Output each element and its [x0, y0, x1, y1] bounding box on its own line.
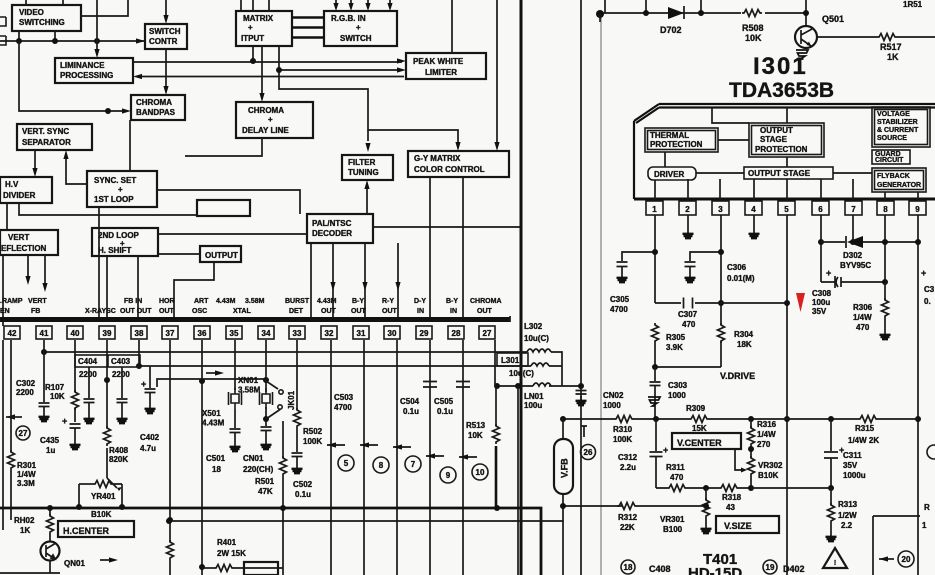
svg-text:!: ! [834, 560, 836, 567]
svg-text:PROTECTION: PROTECTION [650, 140, 703, 149]
block LUMINANCE PROCESSING [55, 58, 133, 83]
svg-text:DECODER: DECODER [312, 229, 352, 238]
wire pin31 column full [363, 340, 365, 575]
svg-text:3.58M: 3.58M [238, 386, 261, 395]
svg-text:R502: R502 [303, 427, 323, 436]
wire pin1 column [622, 215, 655, 303]
svg-text:3.58M: 3.58M [245, 298, 265, 305]
svg-text:R316: R316 [757, 420, 777, 429]
svg-text:40: 40 [71, 329, 80, 338]
node circled 8 [373, 457, 389, 473]
wire pin3 column [720, 215, 722, 367]
svg-text:4700: 4700 [610, 305, 628, 314]
svg-text:R310: R310 [613, 425, 633, 434]
svg-text:R304: R304 [734, 330, 754, 339]
node X-RAY SC [85, 308, 116, 315]
wire thick page divider [520, 0, 523, 575]
block GUARD CIRCUIT [872, 150, 910, 164]
svg-text:B-Y: B-Y [446, 298, 458, 305]
arrow right near QN01 [100, 557, 118, 562]
svg-text:HD-15D: HD-15D [688, 565, 742, 575]
svg-text:8: 8 [379, 461, 384, 470]
svg-text:HOR: HOR [159, 298, 175, 305]
resistor RH02 [47, 508, 54, 541]
pin 9 [909, 201, 926, 215]
svg-text:H.V: H.V [5, 180, 19, 189]
capacitor C404 [84, 367, 95, 423]
svg-text:4.43M: 4.43M [317, 298, 337, 305]
svg-text:XN01: XN01 [238, 376, 259, 385]
wire pin33 column + R502 [296, 340, 298, 452]
svg-text:C504: C504 [400, 397, 420, 406]
svg-text:OUT: OUT [351, 308, 367, 315]
wire stub x646 [645, 0, 647, 13]
svg-text:1000: 1000 [603, 401, 621, 410]
capacitor C305 [617, 262, 628, 282]
svg-text:+: + [248, 23, 253, 32]
svg-text:BYV95C: BYV95C [840, 261, 871, 270]
svg-text:SYNC. SET: SYNC. SET [94, 176, 136, 185]
svg-text:QN01: QN01 [64, 559, 85, 568]
inductor L302 [527, 349, 551, 352]
wire pin36 column full [201, 340, 203, 575]
node circled 5 [338, 455, 354, 471]
resistor R508 [742, 10, 762, 17]
block FILTER TUNING [342, 155, 393, 180]
svg-text:10u(C): 10u(C) [509, 369, 534, 378]
svg-text:X-RAYSC: X-RAYSC [85, 308, 116, 315]
pin 33 [289, 326, 305, 339]
svg-text:STAGE: STAGE [760, 135, 788, 144]
node ART OSC [192, 298, 209, 315]
wire bus y366 [139, 365, 562, 367]
svg-text:OUT: OUT [159, 308, 175, 315]
svg-text:100u: 100u [812, 298, 830, 307]
wire pin40 column [74, 340, 76, 422]
svg-text:CIRCUIT: CIRCUIT [875, 157, 904, 164]
wire G-Y bottom drops [430, 177, 463, 322]
svg-text:B10K: B10K [91, 510, 112, 519]
svg-text:+: + [921, 268, 926, 278]
svg-text:CHROMA: CHROMA [470, 298, 502, 305]
svg-text:PROCESSING: PROCESSING [60, 71, 113, 80]
capacitor C311 [824, 419, 838, 488]
svg-text:DIVIDER: DIVIDER [3, 191, 36, 200]
wire left bus down to CHROMA BANDPAS [19, 41, 127, 111]
wire bus y386 [497, 385, 581, 387]
wire pin5 column [786, 215, 788, 575]
pin 7 [845, 201, 862, 215]
svg-text:XTAL: XTAL [233, 308, 251, 315]
wire into G-Y MATRIX from top [496, 0, 498, 147]
svg-text:220(CH): 220(CH) [243, 465, 274, 474]
svg-text:SWITCH: SWITCH [340, 34, 372, 43]
svg-text:VOLTAGE: VOLTAGE [877, 111, 910, 118]
wire CHROMA BANDPAS down to SYNC SET [129, 120, 131, 171]
node circled 9 [440, 467, 456, 483]
resistor R312 [617, 503, 637, 510]
svg-text:38: 38 [135, 329, 144, 338]
inductor L301 [531, 363, 549, 366]
svg-text:VERT: VERT [8, 233, 29, 242]
svg-text:4700: 4700 [334, 403, 352, 412]
svg-text:C505: C505 [434, 397, 454, 406]
pin 35 [226, 326, 242, 339]
capacitor CN02 on x581 [576, 391, 625, 411]
svg-text:R517: R517 [880, 42, 902, 52]
svg-text:BANDPAS: BANDPAS [136, 108, 176, 117]
svg-text:RH02: RH02 [14, 516, 35, 525]
resistor R401 [202, 565, 283, 572]
wire into LUMINANCE top [96, 0, 98, 54]
wire pin4 ground [753, 215, 755, 229]
svg-text:31: 31 [357, 329, 366, 338]
wire MATRIX to PEAK WHITE [133, 46, 402, 62]
node circled 27 [16, 426, 30, 440]
trimmer YR401 [79, 478, 122, 507]
svg-text:10K: 10K [745, 33, 762, 43]
signal arrows on columns [327, 442, 345, 447]
svg-text:27: 27 [19, 429, 28, 438]
node FB IN OUT [120, 298, 152, 315]
svg-text:2.2: 2.2 [841, 521, 853, 530]
svg-text:D302: D302 [843, 251, 863, 260]
svg-text:33: 33 [293, 329, 302, 338]
transistor QN01 [41, 542, 60, 561]
node 4.43M XTAL [216, 298, 236, 305]
svg-text:C307: C307 [678, 310, 698, 319]
svg-text:C308: C308 [812, 289, 832, 298]
svg-text:C404: C404 [78, 357, 98, 366]
svg-text:37: 37 [166, 329, 175, 338]
pin 36 [194, 326, 210, 339]
crystal XN01 [260, 340, 273, 409]
svg-text:6: 6 [818, 205, 823, 214]
svg-text:470: 470 [856, 323, 870, 332]
block SWITCH CONTR [145, 24, 187, 49]
edge fragment boxes top-left [0, 17, 6, 45]
svg-text:5: 5 [784, 205, 789, 214]
block V.CENTER [672, 433, 741, 449]
pin 28 [448, 326, 464, 339]
resistor R501 [280, 421, 287, 575]
svg-text:IN: IN [450, 308, 457, 315]
svg-text:18K: 18K [737, 340, 752, 349]
svg-text:OUT: OUT [321, 308, 337, 315]
capacitor C501 [230, 409, 241, 451]
ground Q501 [796, 50, 808, 59]
wire x518 column [517, 386, 519, 575]
svg-text:C303: C303 [668, 381, 688, 390]
svg-text:EFLECTION: EFLECTION [1, 244, 47, 253]
svg-text:20: 20 [902, 555, 911, 564]
marker red flag [796, 293, 805, 312]
svg-text:7: 7 [411, 460, 416, 469]
wire MATRIX to G-Y MATRIX [279, 70, 458, 147]
pin 40 [67, 326, 83, 339]
svg-text:CONTR: CONTR [149, 37, 178, 46]
svg-text:VERT: VERT [28, 298, 47, 305]
svg-text:R: R [924, 503, 930, 512]
svg-text:OUTPUT: OUTPUT [760, 126, 793, 135]
svg-text:4.43M: 4.43M [202, 419, 225, 428]
wire H.V DIVIDER to VERT DEFLECTION [6, 203, 8, 230]
svg-text:470: 470 [670, 473, 684, 482]
svg-text:R312: R312 [618, 513, 638, 522]
svg-text:FB: FB [31, 308, 40, 315]
node B-Y OUT [351, 298, 367, 315]
svg-text:1000u: 1000u [843, 471, 866, 480]
wire SYNC SET right bus to PAL decoder [157, 190, 300, 214]
wire VERT SYNC to H.V DIVIDER [34, 150, 36, 173]
svg-text:TDA3653B: TDA3653B [729, 79, 834, 102]
resistor R517 [828, 34, 935, 41]
wire RGB top arrows [336, 0, 390, 7]
wire MATRIX-RGB triple links [292, 18, 324, 38]
node B-Y IN [446, 298, 458, 315]
svg-text:0.01(M): 0.01(M) [727, 274, 755, 283]
svg-text:3: 3 [718, 205, 723, 214]
svg-text:100u: 100u [524, 401, 542, 410]
wire VIDEO SWITCHING drops [19, 31, 55, 41]
block bottom-right frame [873, 516, 920, 575]
pin 42 [4, 326, 20, 339]
svg-text:R401: R401 [217, 538, 237, 547]
svg-text:BURST: BURST [285, 298, 310, 305]
svg-text:R501: R501 [255, 477, 275, 486]
wire pin8 column [884, 215, 886, 282]
resistor R304 [718, 323, 725, 343]
resistor R315 [858, 416, 878, 423]
svg-text:R315: R315 [855, 424, 875, 433]
block VERT DEFLECTION [0, 230, 58, 255]
block VOLTAGE STABILIZER [872, 107, 930, 147]
wire VERT DEFLECTION down arrows [27, 255, 29, 280]
svg-text:+: + [356, 23, 361, 32]
svg-text:R107: R107 [45, 383, 65, 392]
block 2ND LOOP + H.SHIFT [92, 228, 158, 256]
label C404 C403 boxed [75, 355, 140, 367]
block PAL/NTSC DECODER [307, 214, 373, 243]
svg-text:X501: X501 [202, 409, 221, 418]
svg-text:C305: C305 [610, 295, 630, 304]
svg-text:1/2W: 1/2W [838, 511, 857, 520]
wire pin30 column full [396, 340, 398, 575]
trimmer VR302 [735, 449, 755, 488]
svg-text:22K: 22K [620, 523, 635, 532]
pin 6 [812, 201, 829, 215]
block V.SIZE [716, 516, 779, 533]
resistor R318 [719, 485, 739, 492]
wire thick bus y508 [0, 508, 541, 575]
wire CHROMA DELAY bottom [185, 138, 262, 156]
node CHROMA OUT [470, 298, 502, 315]
svg-text:R306: R306 [853, 303, 873, 312]
svg-text:R508: R508 [742, 23, 764, 33]
svg-text:OUTPUT STAGE: OUTPUT STAGE [748, 169, 811, 178]
svg-text:COLOR CONTROL: COLOR CONTROL [414, 165, 485, 174]
svg-text:2W 15K: 2W 15K [217, 549, 246, 558]
svg-text:C435: C435 [40, 436, 60, 445]
wire pin7 stub [852, 215, 854, 242]
svg-text:C306: C306 [727, 263, 747, 272]
svg-text:9: 9 [915, 205, 920, 214]
node RAMP GEN [0, 298, 23, 315]
svg-text:D402: D402 [783, 564, 805, 574]
svg-text:10K: 10K [468, 431, 483, 440]
svg-text:B10K: B10K [758, 471, 779, 480]
svg-text:FLYBACK: FLYBACK [877, 173, 910, 180]
block FLYBACK GENERATOR [872, 168, 926, 192]
svg-text:+: + [62, 416, 67, 426]
node circled 20 [898, 551, 914, 567]
svg-text:+: + [141, 379, 146, 389]
node circled 18 [621, 560, 635, 574]
capacitor CN01 [261, 407, 272, 449]
svg-text:C312: C312 [618, 453, 638, 462]
node R-Y OUT [382, 298, 398, 315]
svg-text:R313: R313 [838, 500, 858, 509]
pin 31 [353, 326, 369, 339]
pin 34 [258, 326, 274, 339]
svg-text:1K: 1K [20, 526, 30, 535]
capacitor C505 [456, 382, 470, 388]
svg-text:JK01: JK01 [287, 390, 296, 410]
svg-text:15K: 15K [692, 424, 707, 433]
svg-text:C501: C501 [206, 454, 226, 463]
svg-text:ART: ART [194, 298, 209, 305]
svg-text:SOURCE: SOURCE [877, 135, 907, 142]
svg-text:C311: C311 [843, 451, 862, 460]
wire SYNC SET up into VERT SYNC [66, 154, 87, 184]
svg-text:R305: R305 [666, 333, 686, 342]
svg-text:V.FB: V.FB [560, 458, 570, 478]
svg-text:100K: 100K [613, 435, 632, 444]
wire PAL right bus [373, 226, 521, 228]
svg-text:OSC: OSC [192, 308, 207, 315]
svg-text:3.9K: 3.9K [666, 343, 683, 352]
svg-text:8: 8 [883, 205, 888, 214]
svg-text:0.1u: 0.1u [295, 490, 311, 499]
wire top supply rail [599, 12, 806, 14]
pin 41 [36, 326, 52, 339]
svg-text:CHROMA: CHROMA [248, 106, 284, 115]
svg-text:C503: C503 [334, 393, 354, 402]
IC bottom heavy bar [0, 317, 510, 322]
wire R312 row y506 [563, 505, 706, 507]
svg-text:R408: R408 [109, 446, 129, 455]
arrow into circled 20 [879, 556, 894, 561]
pin 4 [745, 201, 762, 215]
svg-text:1/4W: 1/4W [757, 430, 776, 439]
svg-text:2.2u: 2.2u [620, 463, 636, 472]
wire 2ND LOOP right to PAL [158, 233, 307, 235]
svg-text:1: 1 [922, 521, 927, 530]
svg-text:PAL/NTSC: PAL/NTSC [312, 219, 352, 228]
svg-text:5: 5 [344, 459, 349, 468]
diode D302 [846, 236, 863, 248]
wire PEAK WHITE top up [451, 0, 453, 53]
svg-text:30: 30 [388, 329, 397, 338]
svg-text:C408: C408 [649, 564, 671, 574]
svg-text:42: 42 [8, 329, 17, 338]
capacitor C402 [145, 366, 156, 413]
IC internal wires [655, 107, 918, 200]
svg-text:10u(C): 10u(C) [524, 334, 549, 343]
wire 2ND LOOP to OUTPUT [158, 253, 200, 255]
svg-text:& CURRENT: & CURRENT [877, 127, 919, 134]
pin 38 [131, 326, 147, 339]
svg-text:1R51: 1R51 [903, 0, 923, 9]
capacitor C312 [650, 419, 663, 488]
svg-text:H. SHIFT: H. SHIFT [98, 246, 131, 255]
inductor LN01 [533, 383, 551, 386]
block CHROMA BANDPASS [131, 95, 185, 120]
node VERT FB [28, 298, 47, 315]
svg-text:VERT. SYNC: VERT. SYNC [22, 127, 69, 136]
node supply blob [596, 0, 605, 22]
svg-text:C3: C3 [924, 285, 935, 294]
resistor R310 [614, 416, 634, 423]
wire stub x701 [700, 0, 702, 13]
svg-text:GENERATOR: GENERATOR [877, 182, 921, 189]
svg-text:B100: B100 [663, 525, 683, 534]
pin 27 [479, 326, 495, 339]
svg-text:39: 39 [103, 329, 112, 338]
wire top feeds into VIDEO SWITCHING [26, 0, 63, 5]
svg-text:SWITCH: SWITCH [149, 27, 181, 36]
svg-text:DET: DET [289, 308, 304, 315]
wire return line into LUMINANCE [138, 76, 404, 78]
svg-text:SEPARATOR: SEPARATOR [22, 138, 71, 147]
capacitor C403 [117, 367, 128, 423]
svg-text:9: 9 [446, 471, 451, 480]
wire horizontal input bus y41 [0, 40, 145, 42]
svg-text:1/4W: 1/4W [17, 470, 36, 479]
block RGB IN + SWITCH [324, 11, 397, 46]
svg-text:4: 4 [751, 205, 756, 214]
IC I301 outline [634, 104, 935, 199]
svg-text:0.1u: 0.1u [437, 407, 453, 416]
svg-text:R301: R301 [17, 461, 37, 470]
svg-text:TUNING: TUNING [348, 168, 379, 177]
capacitor C502 [292, 453, 303, 473]
terminal T symbol [581, 426, 587, 437]
svg-text:L301: L301 [501, 356, 520, 365]
transistor Q501 [795, 26, 828, 48]
block SYNC SET + 1ST LOOP [87, 171, 157, 207]
svg-text:1u: 1u [46, 446, 55, 455]
svg-text:CN01: CN01 [243, 454, 264, 463]
svg-text:THERMAL: THERMAL [650, 131, 689, 140]
svg-text:OUTPUT: OUTPUT [205, 251, 238, 260]
svg-text:R513: R513 [466, 421, 486, 430]
svg-text:C302: C302 [16, 379, 36, 388]
svg-text:LIMINANCE: LIMINANCE [60, 61, 105, 70]
wire MATRIX down to CHROMA DELAY [261, 46, 263, 98]
svg-text:DELAY LINE: DELAY LINE [242, 126, 289, 135]
svg-text:3.3M: 3.3M [17, 479, 35, 488]
pin 32 [321, 326, 337, 339]
svg-text:2200: 2200 [16, 388, 34, 397]
wire 2ND LOOP bottom drops [107, 256, 138, 322]
svg-text:32: 32 [325, 329, 334, 338]
svg-text:2ND LOOP: 2ND LOOP [98, 231, 140, 240]
svg-text:IN: IN [417, 308, 424, 315]
capacitor C308 [821, 276, 885, 288]
wire main row y419 [563, 418, 918, 420]
resistor below pin37 [167, 540, 174, 560]
